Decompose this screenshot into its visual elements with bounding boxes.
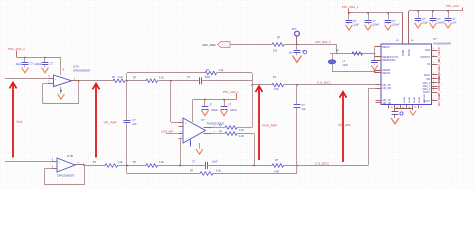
svg-text:REFN1: REFN1 [382,72,391,75]
svg-text:VCM_AAF: VCM_AAF [161,129,174,133]
svg-text:CONVST: CONVST [420,56,431,59]
svg-text:REFGND: REFGND [424,94,426,103]
svg-text:10µF: 10µF [422,22,428,25]
svg-text:100nF: 100nF [437,22,445,25]
svg-text:AGND: AGND [403,96,406,103]
svg-text:P5V_AUX: P5V_AUX [446,4,459,8]
svg-text:P5V_ANA_1: P5V_ANA_1 [8,47,25,51]
svg-text:1nF: 1nF [452,22,457,25]
svg-text:4.3k: 4.3k [159,161,164,164]
svg-text:1nF: 1nF [302,108,307,111]
svg-text:U?: U? [433,37,437,41]
svg-text:REFIN: REFIN [382,46,389,49]
svg-text:100nF: 100nF [230,109,237,112]
svg-text:ADS8684IDBR: ADS8684IDBR [433,41,451,45]
svg-text:AVDD: AVDD [402,49,405,56]
svg-text:100nF: 100nF [372,24,380,27]
svg-text:4.99: 4.99 [239,129,244,132]
svg-text:SCLK: SCLK [424,74,431,77]
svg-text:ADC_CONVST: ADC_CONVST [438,46,441,62]
svg-text:Vout_AAF: Vout_AAF [262,123,277,127]
svg-text:10µF: 10µF [16,63,22,66]
svg-text:10µF: 10µF [353,24,359,27]
svg-text:100pF: 100pF [34,63,42,66]
svg-text:4.3k: 4.3k [159,76,164,79]
svg-text:100nF: 100nF [392,24,400,27]
svg-text:Vin_AAF: Vin_AAF [104,120,117,124]
svg-text:DVDD: DVDD [409,49,411,56]
svg-text:U?: U? [201,118,205,122]
svg-text:4.99: 4.99 [274,170,279,173]
svg-text:AIN_0M: AIN_0M [382,87,391,90]
svg-text:REF: REF [425,49,430,52]
svg-text:10nF: 10nF [205,76,211,79]
svg-text:CS: CS [427,63,431,66]
svg-text:ADC_REF_F: ADC_REF_F [315,40,331,44]
svg-text:DGND: DGND [419,96,421,103]
svg-text:2.2k: 2.2k [118,161,123,164]
svg-text:REFBUFIN2: REFBUFIN2 [382,59,396,62]
svg-text:4.99: 4.99 [239,135,244,138]
svg-text:S_N_ADC2: S_N_ADC2 [315,162,329,166]
svg-text:OPA2350ID8T: OPA2350ID8T [73,69,91,73]
svg-text:AIN_1M: AIN_1M [382,102,391,105]
svg-text:10nF: 10nF [343,64,349,67]
svg-text:SDI: SDI [426,78,430,81]
svg-text:OPA2350ID8T: OPA2350ID8T [57,173,75,177]
svg-text:P5V_ANA_1: P5V_ANA_1 [342,5,359,9]
svg-text:AGND: AGND [408,96,411,103]
svg-text:2nF: 2nF [133,123,138,126]
svg-text:100pF: 100pF [211,109,218,112]
svg-text:P5V_ANA_1: P5V_ANA_1 [223,90,239,94]
svg-text:DGND: DGND [414,96,416,103]
svg-text:2.2k: 2.2k [118,76,123,79]
svg-text:U?B: U?B [67,154,73,158]
svg-text:S_N_ADC1: S_N_ADC1 [317,80,331,84]
svg-text:TP?: TP? [292,27,297,31]
svg-text:ADC_REF: ADC_REF [202,43,216,47]
svg-text:U?A: U?A [73,65,79,69]
svg-text:ADC_BUSY: ADC_BUSY [438,93,441,106]
svg-text:Vin_adc: Vin_adc [338,123,351,127]
svg-text:DAISY: DAISY [423,91,431,94]
svg-text:4.99: 4.99 [274,88,279,91]
svg-text:Vin1: Vin1 [16,120,23,124]
svg-text:4.3k: 4.3k [216,169,221,172]
svg-text:ADC_CS: ADC_CS [438,59,441,69]
svg-text:10n: 10n [289,51,294,54]
svg-text:4.3k: 4.3k [219,69,224,72]
svg-text:10nF: 10nF [212,161,218,164]
